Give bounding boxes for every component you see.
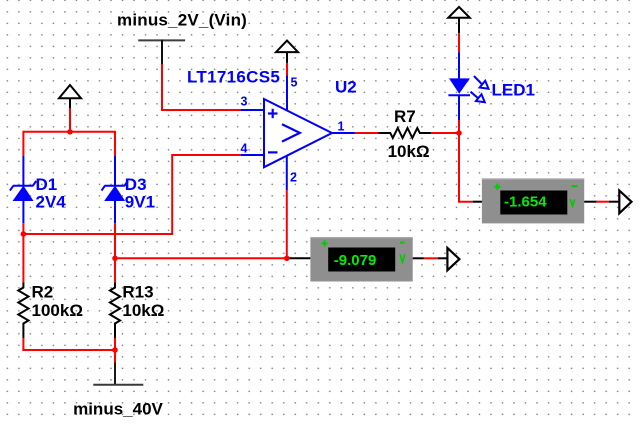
svg-text:minus_2V_(Vin): minus_2V_(Vin) xyxy=(117,11,247,30)
svg-text:10kΩ: 10kΩ xyxy=(388,142,430,161)
svg-text:-1.654: -1.654 xyxy=(504,194,547,211)
svg-text:-9.079: -9.079 xyxy=(334,252,377,269)
svg-text:R13: R13 xyxy=(122,283,153,302)
svg-text:D3: D3 xyxy=(125,175,147,194)
svg-text:10kΩ: 10kΩ xyxy=(122,301,164,320)
svg-text:9V1: 9V1 xyxy=(125,193,155,212)
svg-text:1: 1 xyxy=(338,120,345,134)
svg-text:minus_40V: minus_40V xyxy=(73,400,163,419)
svg-text:100kΩ: 100kΩ xyxy=(32,301,83,320)
svg-text:U2: U2 xyxy=(335,78,357,97)
svg-text:LT1716CS5: LT1716CS5 xyxy=(187,68,280,87)
svg-text:5: 5 xyxy=(291,76,298,90)
svg-text:LED1: LED1 xyxy=(492,80,535,99)
svg-text:2V4: 2V4 xyxy=(36,193,67,212)
svg-text:D1: D1 xyxy=(36,175,58,194)
svg-text:R7: R7 xyxy=(394,107,416,126)
svg-text:3: 3 xyxy=(241,95,248,109)
svg-text:R2: R2 xyxy=(32,283,54,302)
svg-text:2: 2 xyxy=(290,171,297,185)
svg-text:4: 4 xyxy=(241,142,248,156)
